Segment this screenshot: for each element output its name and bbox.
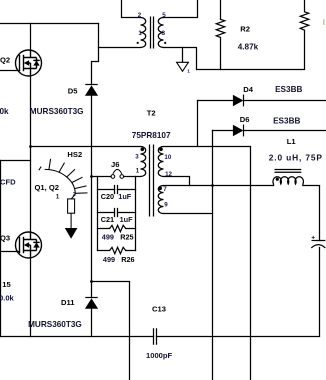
diode D5 [85, 85, 98, 96]
svg-text:0k: 0k [0, 107, 9, 116]
svg-text:D4: D4 [243, 85, 253, 94]
polarized capacitor output [311, 241, 325, 248]
wire R2 bottom lead [220, 37, 222, 69]
svg-text:J6: J6 [111, 160, 119, 169]
T2 phase dot pin3 [141, 148, 145, 152]
resistor R2 [216, 19, 224, 37]
wire branch to C13 column [92, 282, 130, 380]
svg-text:2: 2 [138, 12, 142, 19]
resistor R25 [110, 225, 126, 231]
wire T1 pin2 [122, 0, 141, 18]
inductor L1 core bars [275, 170, 302, 173]
svg-text:2: 2 [73, 192, 76, 198]
wire bottom rail right [157, 248, 320, 337]
svg-text:MURS360T3G: MURS360T3G [28, 320, 82, 329]
wire ground lead [182, 48, 184, 63]
T1 phase dot left [137, 42, 139, 44]
svg-text:1: 1 [138, 30, 142, 37]
transistor Q3 [16, 232, 42, 258]
svg-text:10: 10 [164, 154, 171, 161]
junction branch [90, 280, 93, 283]
svg-text:1: 1 [187, 69, 190, 75]
highlight artifact [323, 19, 324, 25]
svg-text:HS2: HS2 [67, 150, 82, 159]
wire D6 drop column [212, 131, 214, 380]
svg-text:D5: D5 [68, 87, 78, 96]
svg-text:2.0 uH, 75P: 2.0 uH, 75P [269, 152, 323, 162]
svg-text:9: 9 [164, 202, 168, 209]
svg-text:R26: R26 [121, 255, 134, 264]
T1 phase dot right [164, 42, 166, 44]
svg-text:4.87k: 4.87k [238, 42, 259, 51]
wire T2 pin10 row [164, 147, 251, 380]
transformer T2 winding 10-12 [158, 147, 163, 177]
svg-text:5: 5 [162, 12, 166, 19]
wire Q3 gate [0, 251, 20, 253]
wire left stub at y160 [0, 160, 31, 162]
wire T1 pin1 lead [99, 47, 141, 49]
wire T1 pin5 [164, 0, 198, 18]
wire T2 pin9 row [164, 213, 213, 215]
svg-text:R25: R25 [120, 233, 133, 242]
svg-text:T2: T2 [147, 109, 156, 118]
svg-text:C20: C20 [101, 192, 114, 201]
wire snubber right rail [135, 177, 137, 251]
capacitor C13 [154, 328, 157, 345]
capacitor C21 [115, 208, 118, 217]
wire net B row to L1 [164, 185, 274, 187]
svg-text:499: 499 [102, 233, 114, 242]
jumper J6 [111, 169, 124, 178]
wire R25 row [98, 228, 136, 230]
svg-text:L1: L1 [287, 137, 297, 146]
wire D4 anode drop [197, 101, 199, 147]
junction node A [29, 145, 32, 148]
wire J6 row right stub to T2 pin1 [124, 176, 141, 178]
wire R2 top lead [220, 0, 222, 19]
transformer T1 left winding [141, 18, 146, 48]
wire Q2 gate [0, 70, 20, 72]
svg-text:Q1, Q2: Q1, Q2 [35, 183, 59, 192]
wire snubber left rail [97, 177, 99, 251]
svg-text:0.0k: 0.0k [0, 293, 15, 302]
wire C21 row [98, 212, 136, 214]
wire T1 pin3 to ground rail [164, 30, 305, 69]
wire D5 anode to D11 cathode [91, 96, 93, 298]
svg-text:ES3BB: ES3BB [273, 116, 300, 125]
svg-text:CFD: CFD [0, 177, 16, 186]
svg-text:7: 7 [163, 186, 167, 193]
svg-text:ES3BB: ES3BB [275, 85, 302, 94]
svg-text:499: 499 [103, 255, 115, 264]
svg-text:+: + [311, 235, 315, 242]
svg-text:C13: C13 [152, 304, 166, 313]
svg-text:D6: D6 [240, 115, 250, 124]
wire top rail [0, 23, 99, 25]
T2 phase dot pin10 [159, 148, 163, 152]
L1 phase dot [276, 178, 279, 181]
svg-text:1: 1 [56, 193, 60, 200]
svg-text:3: 3 [162, 30, 166, 37]
transformer T1 core [151, 17, 154, 49]
wire left edge loop [0, 161, 2, 337]
wire jog to D5 [92, 48, 99, 85]
svg-text:1: 1 [136, 168, 140, 175]
svg-text:15: 15 [2, 280, 11, 289]
wire R26 row [98, 250, 136, 252]
transformer T2 left winding [141, 147, 146, 177]
transformer T1 right winding [158, 18, 163, 48]
svg-text:1000pF: 1000pF [146, 351, 173, 360]
wire right resistor top lead [304, 0, 306, 12]
svg-text:75PR8107: 75PR8107 [132, 131, 171, 140]
wire node A row to T2 pin3 [31, 146, 141, 148]
diode D11 [85, 298, 98, 309]
wire D11 anode [91, 309, 93, 337]
wire T2 pin12 step [164, 177, 190, 186]
svg-text:3: 3 [135, 154, 139, 161]
wire D4 row [198, 100, 326, 102]
svg-text:12: 12 [165, 171, 172, 178]
junction net B [211, 184, 214, 187]
wire top-right drop to T1 [98, 24, 100, 48]
wire L1 right lead [303, 186, 320, 241]
svg-text:1uF: 1uF [120, 215, 134, 224]
transformer T2 winding 7-9 [158, 186, 163, 214]
resistor right edge [300, 12, 308, 30]
diode D6 [233, 125, 244, 137]
svg-text:C21: C21 [101, 215, 114, 224]
ground symbol net 1 [177, 62, 189, 71]
svg-text:D11: D11 [61, 298, 75, 307]
transistor Q2 [16, 50, 42, 76]
inductor L1 winding [273, 177, 303, 186]
svg-text:R2: R2 [240, 25, 250, 34]
wire D6 row [213, 130, 326, 132]
T2 phase dot pin7 [158, 187, 162, 191]
wire J6 row left stub [92, 176, 112, 178]
svg-text:Q2: Q2 [0, 55, 10, 64]
svg-text:Q3: Q3 [0, 233, 10, 242]
transformer T2 core [150, 145, 154, 217]
resistor R26 [110, 247, 126, 253]
svg-text:MURS360T3G: MURS360T3G [30, 107, 84, 116]
wire bottom rail left [0, 336, 154, 338]
svg-text:1uF: 1uF [118, 192, 132, 201]
diode D4 [233, 95, 244, 107]
capacitor C20 [115, 185, 118, 194]
wire Q3 source [30, 258, 32, 336]
junction J6 row [90, 175, 93, 178]
wire Q2 drain [30, 24, 32, 51]
wire Q2 source to Q3 drain [30, 76, 32, 232]
heatsink HS2 [39, 159, 88, 239]
wire C20 row [98, 189, 136, 191]
